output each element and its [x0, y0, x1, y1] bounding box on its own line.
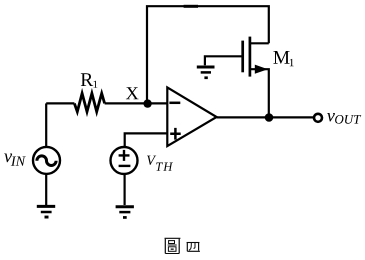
- label vIN: [4, 154, 26, 166]
- wire thick splice segment on top wire: [184, 5, 198, 8]
- terminal vOUT open circle: [314, 114, 322, 122]
- wire drain lead of M1: [250, 42, 269, 44]
- source vIN sine symbol: [37, 156, 56, 166]
- label M1: [273, 51, 293, 66]
- op-amp U1 triangle: [167, 87, 216, 146]
- label X: [126, 87, 139, 99]
- wire gate lead of M1 to ground: [205, 56, 244, 65]
- wire source lead of M1 with arrow, down to output node: [250, 69, 269, 117]
- caption 圖四 drawn as strokes: character 圖: [165, 238, 181, 253]
- wire vIN riser: [45, 103, 47, 146]
- ground below VTH: [116, 207, 134, 219]
- wire resistor to op-amp inverting input: [105, 102, 167, 104]
- label vOUT: [327, 113, 361, 124]
- source VTH minus sign: [119, 165, 131, 167]
- transistor M1 source arrow: [255, 65, 268, 74]
- wire input left segment from vIN to resistor: [46, 102, 74, 104]
- wire VTH riser to op-amp non-inverting input: [125, 133, 167, 146]
- caption 圖四 drawn as strokes: character 四: [187, 243, 200, 252]
- resistor R1: [74, 93, 104, 111]
- wire VTH to ground: [123, 174, 125, 205]
- source VTH plus sign: [119, 150, 130, 161]
- op-amp minus input sign: [169, 102, 180, 105]
- label R1: [81, 73, 98, 88]
- label VTH: [147, 156, 173, 171]
- transistor M1 gate plate: [241, 41, 244, 73]
- wire feedback loop: node X up, across top, down to M1 drain: [147, 6, 269, 103]
- node X junction dot: [143, 99, 151, 107]
- ground at M1 gate: [197, 67, 215, 79]
- node output junction dot: [265, 113, 274, 122]
- op-amp plus input sign: [170, 128, 181, 140]
- wire vIN to ground: [45, 174, 47, 205]
- source vIN circle: [33, 147, 60, 174]
- wire op-amp output to vOUT terminal: [217, 116, 313, 118]
- ground below vIN: [37, 206, 55, 218]
- transistor M1 channel line: [249, 37, 252, 77]
- source VTH circle: [111, 147, 138, 174]
